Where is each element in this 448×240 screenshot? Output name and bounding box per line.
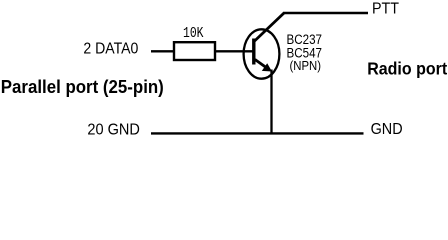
transistor Q1 circle <box>244 29 280 78</box>
svg-text:PTT: PTT <box>372 1 399 18</box>
svg-text:(NPN): (NPN) <box>290 59 322 73</box>
svg-text:10K: 10K <box>183 25 204 42</box>
transistor Q1 base bar <box>252 39 255 65</box>
wire from resistor R1 to transistor base <box>216 50 253 52</box>
wire from collector to PTT <box>283 12 368 14</box>
svg-text:20 GND: 20 GND <box>87 121 139 138</box>
transistor Q1 emitter lead <box>255 60 268 69</box>
resistor R1 body <box>174 42 215 60</box>
svg-text:GND: GND <box>371 121 403 138</box>
svg-text:2 DATA0: 2 DATA0 <box>83 40 138 57</box>
transistor Q1 collector lead <box>254 13 284 42</box>
ground rail wire <box>151 132 364 134</box>
svg-text:Radio port: Radio port <box>367 59 447 79</box>
wire from emitter down to ground rail <box>270 70 272 135</box>
wire from DATA0 to resistor R1 <box>151 50 175 52</box>
transistor Q1 emitter arrowhead <box>262 63 272 71</box>
svg-text:Parallel port (25-pin): Parallel port (25-pin) <box>1 77 164 97</box>
